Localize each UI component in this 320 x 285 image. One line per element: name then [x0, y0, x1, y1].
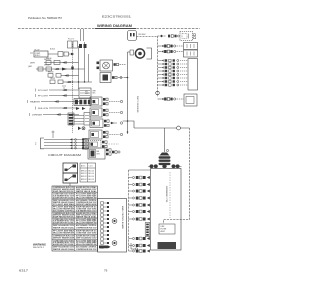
board relay K2 — [112, 219, 117, 224]
svg-text:MULLION HEATER 6W: MULLION HEATER 6W — [53, 232, 74, 235]
right drop dashed wire — [164, 128, 190, 224]
ice maker module A1 — [90, 119, 103, 128]
svg-text:BLU 14: BLU 14 — [89, 173, 94, 175]
legend table frame — [52, 186, 98, 251]
condenser fan motor B1 — [100, 60, 113, 71]
branch CN3 wire — [158, 98, 162, 100]
switch SW1 — [48, 74, 53, 78]
svg-text:WATER VALVE DUAL: WATER VALVE DUAL — [76, 190, 97, 193]
svg-text:AUGER MOTOR 115VAC: AUGER MOTOR 115VAC — [53, 196, 75, 199]
thermostat marks — [62, 85, 66, 87]
svg-text:HEATER: HEATER — [30, 101, 41, 104]
drop wire w circle — [131, 243, 135, 249]
svg-text:FZ LIGHT 40W MAX: FZ LIGHT 40W MAX — [53, 203, 75, 206]
top terminal T1b — [154, 164, 158, 168]
top branch cluster — [168, 35, 170, 38]
wire V2 vertical — [78, 46, 80, 89]
A1 junction to bus — [123, 120, 128, 122]
legend row line 3 — [52, 205, 98, 207]
CN10 wire 2 — [44, 142, 88, 144]
board pin 7 — [101, 226, 104, 228]
branch CN2 upper wire — [158, 45, 162, 47]
mini legend table — [80, 163, 96, 182]
wire defrost row — [44, 62, 79, 64]
wire V1 vertical — [72, 44, 74, 133]
CN11 wires — [74, 115, 84, 117]
transformer bar 1 — [159, 156, 171, 158]
svg-text:CIRCUIT DIAGRAM: CIRCUIT DIAGRAM — [48, 153, 82, 157]
svg-text:EVAP FAN MOTOR DC: EVAP FAN MOTOR DC — [53, 190, 75, 193]
svg-text:WHT-16: WHT-16 — [46, 58, 52, 60]
svg-text:A B C: A B C — [81, 165, 86, 168]
timer assembly box upper — [63, 163, 78, 173]
legend row line 7 — [52, 229, 98, 231]
top terminal T1a — [150, 164, 154, 168]
water valve V1 pins — [103, 131, 105, 134]
main horizontal bus wire — [134, 127, 190, 129]
door switch S5 pins — [102, 141, 104, 144]
inner dark box — [158, 242, 177, 249]
B1 left pins — [97, 62, 100, 65]
branch row D4 — [158, 70, 162, 72]
connector block CN11 — [68, 113, 74, 125]
svg-text:1 2 3: 1 2 3 — [89, 166, 93, 168]
svg-text:WATER VALVE DUAL: WATER VALVE DUAL — [53, 248, 75, 251]
svg-text:RUN C: RUN C — [35, 55, 41, 57]
legend row line 9 — [52, 239, 98, 241]
A2 pins — [106, 149, 108, 152]
run capacitor C1 wire — [128, 51, 131, 53]
connector box CN1 — [180, 32, 193, 41]
auger motor B4 — [90, 108, 102, 117]
inner filter box — [159, 224, 175, 234]
wire row FZ LIGHT — [49, 89, 79, 91]
arrow circle cluster — [78, 127, 81, 131]
tick on V1 — [71, 67, 73, 70]
board pin 4 — [101, 214, 104, 216]
title underline — [95, 28, 136, 30]
line cord plug P1 — [128, 31, 137, 41]
svg-text:DEFR: DEFR — [30, 63, 36, 65]
svg-text:DISPENSER: DISPENSER — [32, 115, 42, 117]
connector box CN2b — [184, 50, 198, 57]
S5 wire — [106, 143, 119, 145]
svg-text:6317: 6317 — [19, 269, 28, 273]
overload OL1 — [64, 52, 69, 56]
B4 wire circle — [109, 112, 120, 114]
B2 right pins — [112, 76, 114, 79]
CN11 end box — [84, 113, 90, 126]
board pin 10 — [101, 238, 104, 240]
stub above CN10 — [52, 131, 54, 139]
svg-text:FZ LIGHT: FZ LIGHT — [38, 90, 49, 92]
harness connector 4 — [129, 197, 133, 199]
B1 wire to bus — [120, 64, 126, 66]
harness connector 5 — [129, 204, 133, 206]
branch CN2 lower wire — [158, 51, 162, 53]
start device housing — [147, 48, 152, 59]
node right bus — [156, 91, 160, 95]
svg-text:DISPENSER CTRL: DISPENSER CTRL — [165, 186, 167, 202]
board pin 6 — [101, 222, 104, 224]
svg-text:MULLION HEATER 6W: MULLION HEATER 6W — [76, 196, 97, 199]
drop side circle — [166, 149, 168, 151]
legend row line 10 — [52, 245, 98, 247]
ladder junction dots — [72, 81, 73, 82]
svg-text:79: 79 — [104, 269, 108, 273]
harness connector 10 — [129, 250, 133, 252]
harness connector 1 — [129, 177, 133, 179]
svg-text:COMPRESSOR RUN 115V: COMPRESSOR RUN 115V — [76, 227, 97, 229]
svg-text:BRN 12: BRN 12 — [81, 173, 87, 175]
legend row line 1 — [52, 192, 98, 194]
board relay K3 — [112, 241, 117, 246]
wire sw row — [61, 75, 79, 77]
svg-text:MKR: MKR — [85, 93, 89, 95]
relay RY1 — [58, 52, 63, 57]
svg-text:[ ADC: [ ADC — [28, 65, 33, 68]
svg-text:BLK-16: BLK-16 — [50, 49, 55, 51]
compressor COMP box — [34, 51, 48, 57]
harness bus vertical — [128, 170, 130, 251]
CN1 side marks — [194, 34, 196, 36]
top terminal T3b — [176, 164, 180, 168]
dispenser motor B3 — [90, 97, 102, 106]
board pin 11 — [101, 242, 104, 244]
legend table column divider — [74, 186, 76, 251]
svg-text:BLK: BLK — [93, 93, 96, 95]
wire diamond — [160, 35, 163, 38]
dark block CN9 — [74, 99, 91, 106]
harness connector 9 — [129, 245, 133, 247]
harness connector 8 — [129, 238, 133, 240]
V1 wire circle — [107, 134, 120, 136]
svg-text:ORG-18: ORG-18 — [44, 65, 50, 67]
board pin 1 — [101, 202, 104, 204]
harness connector 6 — [129, 211, 133, 213]
svg-text:P1 L1 N: P1 L1 N — [68, 39, 75, 41]
legend row line 5 — [52, 217, 98, 219]
feeder drop from rule — [80, 29, 82, 41]
svg-text:WHT: WHT — [93, 91, 96, 93]
ice maker module A1 pins — [104, 120, 106, 123]
svg-text:SEE NOTE 2: SEE NOTE 2 — [33, 247, 44, 249]
diode mark — [71, 53, 74, 55]
wire relay to L1 — [69, 53, 73, 55]
svg-text:WIRING DIAGRAM: WIRING DIAGRAM — [97, 24, 132, 28]
top terminal T2 — [162, 164, 166, 168]
branch row D8 — [158, 84, 162, 86]
svg-text:120V 60HZ: 120V 60HZ — [138, 34, 146, 36]
wire compressor to relay — [48, 53, 58, 55]
connector block CN8 — [79, 88, 91, 98]
svg-text:DISP SOLENOID 115V: DISP SOLENOID 115V — [76, 238, 97, 240]
CN10 end box — [84, 139, 89, 150]
branch row D7 — [158, 81, 162, 83]
board bottom connector — [99, 246, 111, 249]
tick below — [69, 184, 71, 187]
B1 right pins — [114, 63, 116, 66]
svg-text:BRN 12: BRN 12 — [81, 179, 87, 181]
connector CN10 bracket — [41, 138, 45, 149]
svg-text:E23CS78GSS1: E23CS78GSS1 — [102, 15, 132, 19]
top branch wire — [158, 35, 167, 37]
bus jog from mid — [128, 121, 135, 128]
svg-text:DRV: DRV — [97, 154, 101, 156]
svg-text:BIN: BIN — [97, 151, 101, 153]
ice container box A2 — [88, 148, 105, 159]
svg-text:ICE: ICE — [85, 91, 88, 93]
control board block frame — [98, 199, 127, 253]
water valve V1 — [89, 130, 102, 139]
harness connector 2 — [129, 184, 133, 186]
door switch S5 — [88, 141, 101, 149]
arrow A1 — [62, 68, 67, 71]
timer assembly box lower — [63, 173, 78, 183]
svg-text:BRN 12: BRN 12 — [81, 170, 87, 172]
board pin 2 — [101, 206, 104, 208]
dispenser control box frame — [151, 169, 182, 251]
svg-text:DEFROST HEATER 450W: DEFROST HEATER 450W — [53, 237, 74, 240]
wire mid vertical bus — [127, 52, 129, 134]
header rule wire — [18, 28, 200, 30]
svg-text:BLU 14: BLU 14 — [89, 179, 94, 181]
board pin 5 — [101, 218, 104, 220]
A1 wire circle — [110, 122, 117, 124]
svg-text:FF LIGHT: FF LIGHT — [38, 96, 49, 98]
svg-text:PHOTO DIODE BD: PHOTO DIODE BD — [136, 96, 138, 113]
wire row MULLION — [49, 107, 79, 109]
wire plug to right bus — [137, 36, 158, 38]
B3 wire circle — [109, 101, 120, 103]
board pin 8 — [101, 230, 104, 232]
branch row D3 — [158, 67, 162, 69]
branch row D5 — [158, 74, 162, 76]
timer contact K1 — [38, 67, 43, 71]
right bus vertical wire — [157, 36, 159, 97]
terminal wire right — [180, 165, 182, 167]
CN10 wire 3 — [44, 145, 88, 147]
timer motor M1 — [46, 67, 52, 71]
connector box CN2a — [184, 43, 198, 50]
top terminal T3a — [172, 164, 176, 168]
door harness bracket box — [188, 59, 198, 91]
board pin 12 — [101, 246, 104, 248]
terminal wire left — [148, 165, 151, 167]
defrost heater DH1 — [54, 61, 60, 65]
svg-text:BRN 12: BRN 12 — [81, 176, 87, 178]
legend row line 6 — [52, 223, 98, 225]
wire V3 vertical — [84, 42, 86, 82]
branch row D2 — [158, 63, 162, 65]
defrost thermostat DT1 — [46, 61, 51, 65]
tick T1 — [30, 52, 33, 54]
harness connector 3 — [129, 190, 133, 192]
evaporator fan motor B2 — [100, 73, 111, 83]
light switch SW2 — [50, 80, 55, 84]
harness bus top wire — [129, 169, 151, 171]
legend row line 8 — [52, 234, 98, 236]
svg-text:BLU 14: BLU 14 — [89, 170, 94, 172]
CN10 wire 4 — [44, 147, 88, 149]
svg-text:Publication No. 5995421757: Publication No. 5995421757 — [28, 16, 63, 20]
run capacitor C1 — [130, 50, 134, 55]
svg-text:WARNING: WARNING — [33, 243, 46, 246]
junction cluster JB1 — [68, 41, 73, 48]
svg-text:2: 2 — [35, 143, 37, 146]
wire row DISPENSER — [43, 114, 79, 116]
svg-text:ADC BOARD CONTROL: ADC BOARD CONTROL — [53, 209, 75, 212]
arrows mid — [76, 107, 80, 110]
board pin 9 — [101, 234, 104, 236]
connector box CN3 — [184, 94, 197, 106]
svg-text:ASSY: ASSY — [161, 230, 166, 233]
svg-text:BLU 14: BLU 14 — [89, 176, 94, 178]
wire light row — [63, 81, 92, 83]
svg-text:MAIN CONTROL BOARD: MAIN CONTROL BOARD — [121, 206, 124, 229]
wire row HEATER — [41, 101, 79, 103]
legend row line 2 — [52, 198, 98, 200]
legend row line 4 — [52, 211, 98, 213]
svg-text:COMPRESSOR RUN 115V: COMPRESSOR RUN 115V — [76, 249, 97, 251]
auger motor B4 pins — [103, 109, 105, 112]
wire V4 vertical — [88, 54, 90, 82]
branch row D1 — [158, 60, 162, 62]
transformer bar 3 — [159, 163, 171, 165]
harness connector 7 — [129, 218, 133, 220]
node open circle — [177, 126, 181, 130]
wire compressor drop — [164, 128, 166, 152]
svg-text:COND FAN 115V 60HZ: COND FAN 115V 60HZ — [76, 232, 97, 235]
svg-text:WATER VALVE DUAL: WATER VALVE DUAL — [53, 226, 75, 229]
branch row D6 — [158, 77, 162, 79]
svg-text:DEFROST HEATER 450W: DEFROST HEATER 450W — [76, 203, 97, 206]
wire timer row — [36, 68, 85, 70]
B2 wire to bus — [118, 77, 123, 79]
transformer bar 2 — [159, 160, 171, 162]
CN10 wire 1 — [44, 139, 88, 141]
svg-text:ICE MAKER MOD 115V: ICE MAKER MOD 115V — [76, 209, 97, 212]
inner wire — [169, 172, 171, 218]
board pin 3 — [101, 210, 104, 212]
svg-text:MULLION: MULLION — [38, 108, 49, 110]
wire row FF LIGHT — [49, 95, 79, 97]
vertical connector strip — [145, 223, 150, 237]
dispenser motor B3 pins — [103, 98, 105, 101]
transformer cap — [160, 153, 170, 156]
